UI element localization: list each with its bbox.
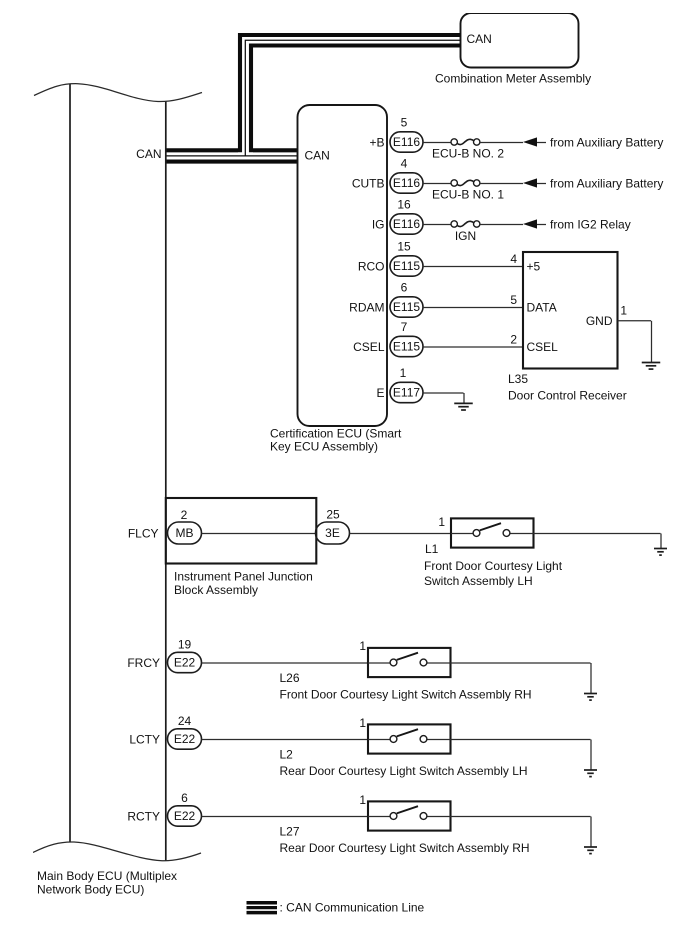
svg-text:LCTY: LCTY (129, 732, 160, 746)
svg-text:1: 1 (359, 639, 366, 653)
wire L1 to ground (534, 533, 661, 535)
svg-text:RDAM: RDAM (349, 300, 384, 314)
svg-text:E116: E116 (393, 135, 420, 149)
front door courtesy light switch assembly LH L1 (451, 518, 534, 547)
wire fuse to source arrow (480, 183, 523, 185)
svg-text:E22: E22 (174, 732, 196, 746)
main body ECU bus left edge (69, 84, 71, 842)
svg-text:1: 1 (438, 515, 445, 529)
connector E115 (pin 6) (390, 297, 423, 317)
connector E22 (pin 19) (168, 652, 202, 672)
svg-text:Front Door Courtesy Light Swit: Front Door Courtesy Light Switch Assembl… (280, 688, 532, 702)
wire CUTB to fuse (423, 183, 451, 185)
svg-text:4: 4 (401, 157, 408, 171)
svg-text:1: 1 (359, 793, 366, 807)
wire: CAN communication line bus to certification ECU (top thick, two segments) (166, 148, 238, 152)
legend: CAN communication line symbol (247, 901, 278, 905)
svg-text:Main Body ECU (Multiplex: Main Body ECU (Multiplex (37, 869, 177, 883)
svg-text:ECU-B NO. 2: ECU-B NO. 2 (432, 147, 504, 161)
svg-text:GND: GND (586, 314, 613, 328)
instrument panel junction block assembly box (166, 498, 316, 564)
connector 3E (pin 25) (316, 522, 350, 544)
svg-text:from Auxiliary Battery: from Auxiliary Battery (550, 176, 663, 190)
svg-text:1: 1 (620, 304, 627, 318)
svg-text:IGN: IGN (455, 229, 476, 243)
svg-text:RCTY: RCTY (127, 809, 160, 823)
svg-text:Door Control Receiver: Door Control Receiver (508, 389, 627, 403)
svg-text:Certification ECU (Smart: Certification ECU (Smart (270, 427, 402, 441)
svg-text:2: 2 (181, 508, 188, 522)
combination meter assembly box (461, 13, 579, 68)
wire CSEL to door control receiver (423, 346, 523, 348)
fuse ECU-B NO. 2 (451, 139, 457, 145)
bus top break wavy line (34, 84, 202, 102)
wire MB to 3E inside junction block (202, 533, 316, 535)
svg-text:CAN: CAN (467, 32, 492, 46)
connector E22 (pin 6) (168, 806, 202, 826)
wire RCO to door control receiver (423, 266, 523, 268)
wire: CAN communication line bus to certification ECU (bottom thick) (166, 160, 298, 164)
connector E22 (pin 24) (168, 729, 202, 749)
svg-text:E115: E115 (393, 340, 420, 354)
wire RCTY to switch L27 (202, 816, 369, 818)
connector E117 (pin 1) (390, 382, 423, 402)
bus bottom break wavy line (33, 842, 201, 861)
wire LCTY to switch L2 (202, 739, 369, 741)
wire: CAN communication line from combination meter (inner thick) (251, 46, 461, 153)
switch L27 (368, 801, 451, 830)
svg-text:+B: +B (369, 135, 384, 149)
svg-text:25: 25 (326, 508, 340, 522)
svg-text:MB: MB (176, 526, 194, 540)
svg-text:Instrument Panel Junction: Instrument Panel Junction (174, 570, 313, 584)
arrow from IG2 Relay (523, 219, 537, 228)
svg-text:24: 24 (178, 714, 192, 728)
wire fuse to source arrow (480, 142, 523, 144)
svg-text:E116: E116 (393, 217, 420, 231)
svg-text:4: 4 (510, 252, 517, 266)
svg-text:from Auxiliary Battery: from Auxiliary Battery (550, 135, 663, 149)
wire: CAN communication line bus to certification ECU (center thin) (166, 155, 298, 157)
svg-text:IG: IG (372, 217, 385, 231)
svg-text:L1: L1 (425, 542, 439, 556)
svg-text:CSEL: CSEL (353, 340, 385, 354)
svg-text:L26: L26 (280, 671, 300, 685)
svg-text:Rear Door Courtesy Light Switc: Rear Door Courtesy Light Switch Assembly… (280, 764, 528, 778)
wire L27 to ground (451, 816, 591, 818)
svg-text:3E: 3E (325, 526, 340, 540)
svg-text:Combination Meter Assembly: Combination Meter Assembly (435, 72, 591, 86)
svg-text:from IG2 Relay: from IG2 Relay (550, 217, 631, 231)
fuse IGN (451, 221, 457, 227)
svg-text:E115: E115 (393, 300, 420, 314)
svg-text:L2: L2 (280, 748, 294, 762)
wire +B to fuse (423, 142, 451, 144)
certification ECU (smart key ECU assembly) box (298, 105, 388, 426)
svg-text:19: 19 (178, 638, 192, 652)
wire L26 to ground (451, 662, 591, 664)
svg-text:CAN: CAN (136, 147, 161, 161)
connector MB (pin 2) (168, 522, 202, 544)
arrow from Auxiliary Battery (523, 137, 537, 146)
ground (L27 switch) (584, 846, 597, 848)
arrow from Auxiliary Battery (523, 178, 537, 187)
svg-text:ECU-B NO. 1: ECU-B NO. 1 (432, 188, 504, 202)
ground (certification ECU E terminal) (454, 402, 473, 404)
ground (door control receiver) (642, 362, 661, 364)
connector E115 (pin 7) (390, 336, 423, 356)
fuse ECU-B NO. 1 (451, 180, 457, 186)
svg-text:6: 6 (181, 791, 188, 805)
main body ECU bus right edge (165, 101, 167, 861)
svg-text:CUTB: CUTB (352, 176, 385, 190)
svg-text:1: 1 (359, 716, 366, 730)
wire fuse to source arrow (480, 224, 523, 226)
svg-text:E22: E22 (174, 809, 196, 823)
svg-text:E: E (376, 386, 384, 400)
wire GND to ground (618, 320, 652, 322)
svg-text:Network Body ECU): Network Body ECU) (37, 883, 144, 897)
svg-text:CAN: CAN (305, 149, 330, 163)
ground (L26 switch) (584, 693, 597, 695)
svg-text:FRCY: FRCY (127, 656, 160, 670)
connector E116 (pin 5) (390, 132, 423, 152)
svg-text:Block Assembly: Block Assembly (174, 583, 258, 597)
wire L2 to ground (451, 739, 591, 741)
switch L26 (368, 648, 451, 677)
svg-text:Key ECU Assembly): Key ECU Assembly) (270, 440, 378, 454)
svg-text:16: 16 (397, 198, 411, 212)
svg-text:E22: E22 (174, 656, 196, 670)
svg-text:DATA: DATA (527, 300, 557, 314)
svg-text:7: 7 (401, 320, 408, 334)
svg-text:1: 1 (400, 366, 407, 380)
wire: CAN communication line from combination meter (center thin) (245, 40, 460, 156)
svg-text:+5: +5 (527, 259, 541, 273)
svg-text:E115: E115 (393, 259, 420, 273)
ground (L1 switch) (654, 548, 667, 550)
door control receiver L35 box (523, 252, 618, 369)
connector E116 (pin 16) (390, 214, 423, 234)
switch L2 (368, 724, 451, 753)
wire E to ground (423, 392, 464, 394)
wire: CAN communication line from combination meter (outer thick) (240, 35, 461, 152)
svg-text:6: 6 (401, 281, 408, 295)
svg-text:Switch Assembly LH: Switch Assembly LH (424, 574, 533, 588)
svg-text:5: 5 (401, 116, 408, 130)
wire RDAM to door control receiver (423, 307, 523, 309)
wire 3E to front door courtesy light switch LH (350, 533, 452, 535)
svg-text:2: 2 (510, 332, 517, 346)
svg-text:: CAN Communication Line: : CAN Communication Line (280, 901, 425, 915)
svg-text:RCO: RCO (358, 259, 385, 273)
wire FRCY to switch L26 (202, 662, 369, 664)
svg-text:E116: E116 (393, 176, 420, 190)
svg-text:15: 15 (397, 240, 411, 254)
svg-text:L27: L27 (280, 825, 300, 839)
wire IG to fuse (423, 224, 451, 226)
svg-text:E117: E117 (393, 386, 420, 400)
svg-text:Front Door Courtesy Light: Front Door Courtesy Light (424, 559, 563, 573)
svg-text:CSEL: CSEL (527, 340, 559, 354)
connector E116 (pin 4) (390, 173, 423, 193)
svg-text:5: 5 (510, 293, 517, 307)
svg-text:FLCY: FLCY (128, 526, 159, 540)
svg-text:Rear Door Courtesy Light Switc: Rear Door Courtesy Light Switch Assembly… (280, 841, 530, 855)
svg-text:L35: L35 (508, 372, 528, 386)
connector E115 (pin 15) (390, 256, 423, 276)
ground (L2 switch) (584, 769, 597, 771)
